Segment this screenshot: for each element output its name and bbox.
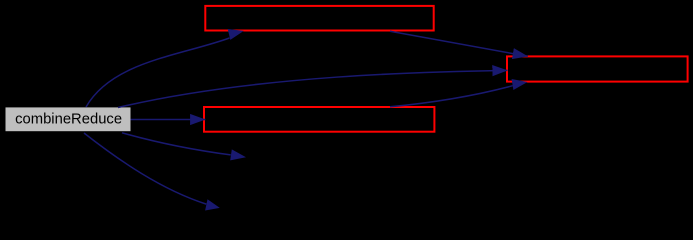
edge top red box to right red box — [390, 31, 528, 56]
edge combineReduce to hidden node 1 — [122, 133, 231, 155]
edge combineReduce to top red box — [86, 38, 230, 107]
edge combineReduce to hidden node 2 — [84, 133, 206, 204]
node top red box — [205, 6, 433, 31]
node combineReduce — [6, 107, 131, 131]
edge middle red box to right red box — [390, 86, 513, 107]
node right red box — [507, 56, 688, 81]
svg-text:combineReduce: combineReduce — [15, 112, 122, 128]
arrowhead of hidden edge 1 — [230, 149, 246, 160]
arrowhead into top red box — [228, 29, 244, 40]
node middle red box — [204, 107, 434, 132]
arrowhead of hidden edge 2 — [205, 199, 220, 210]
edge combineReduce to middle red box — [131, 119, 206, 121]
edge combineReduce to right red box — [118, 70, 508, 107]
arrowhead into right red box bottom corner — [512, 79, 528, 90]
